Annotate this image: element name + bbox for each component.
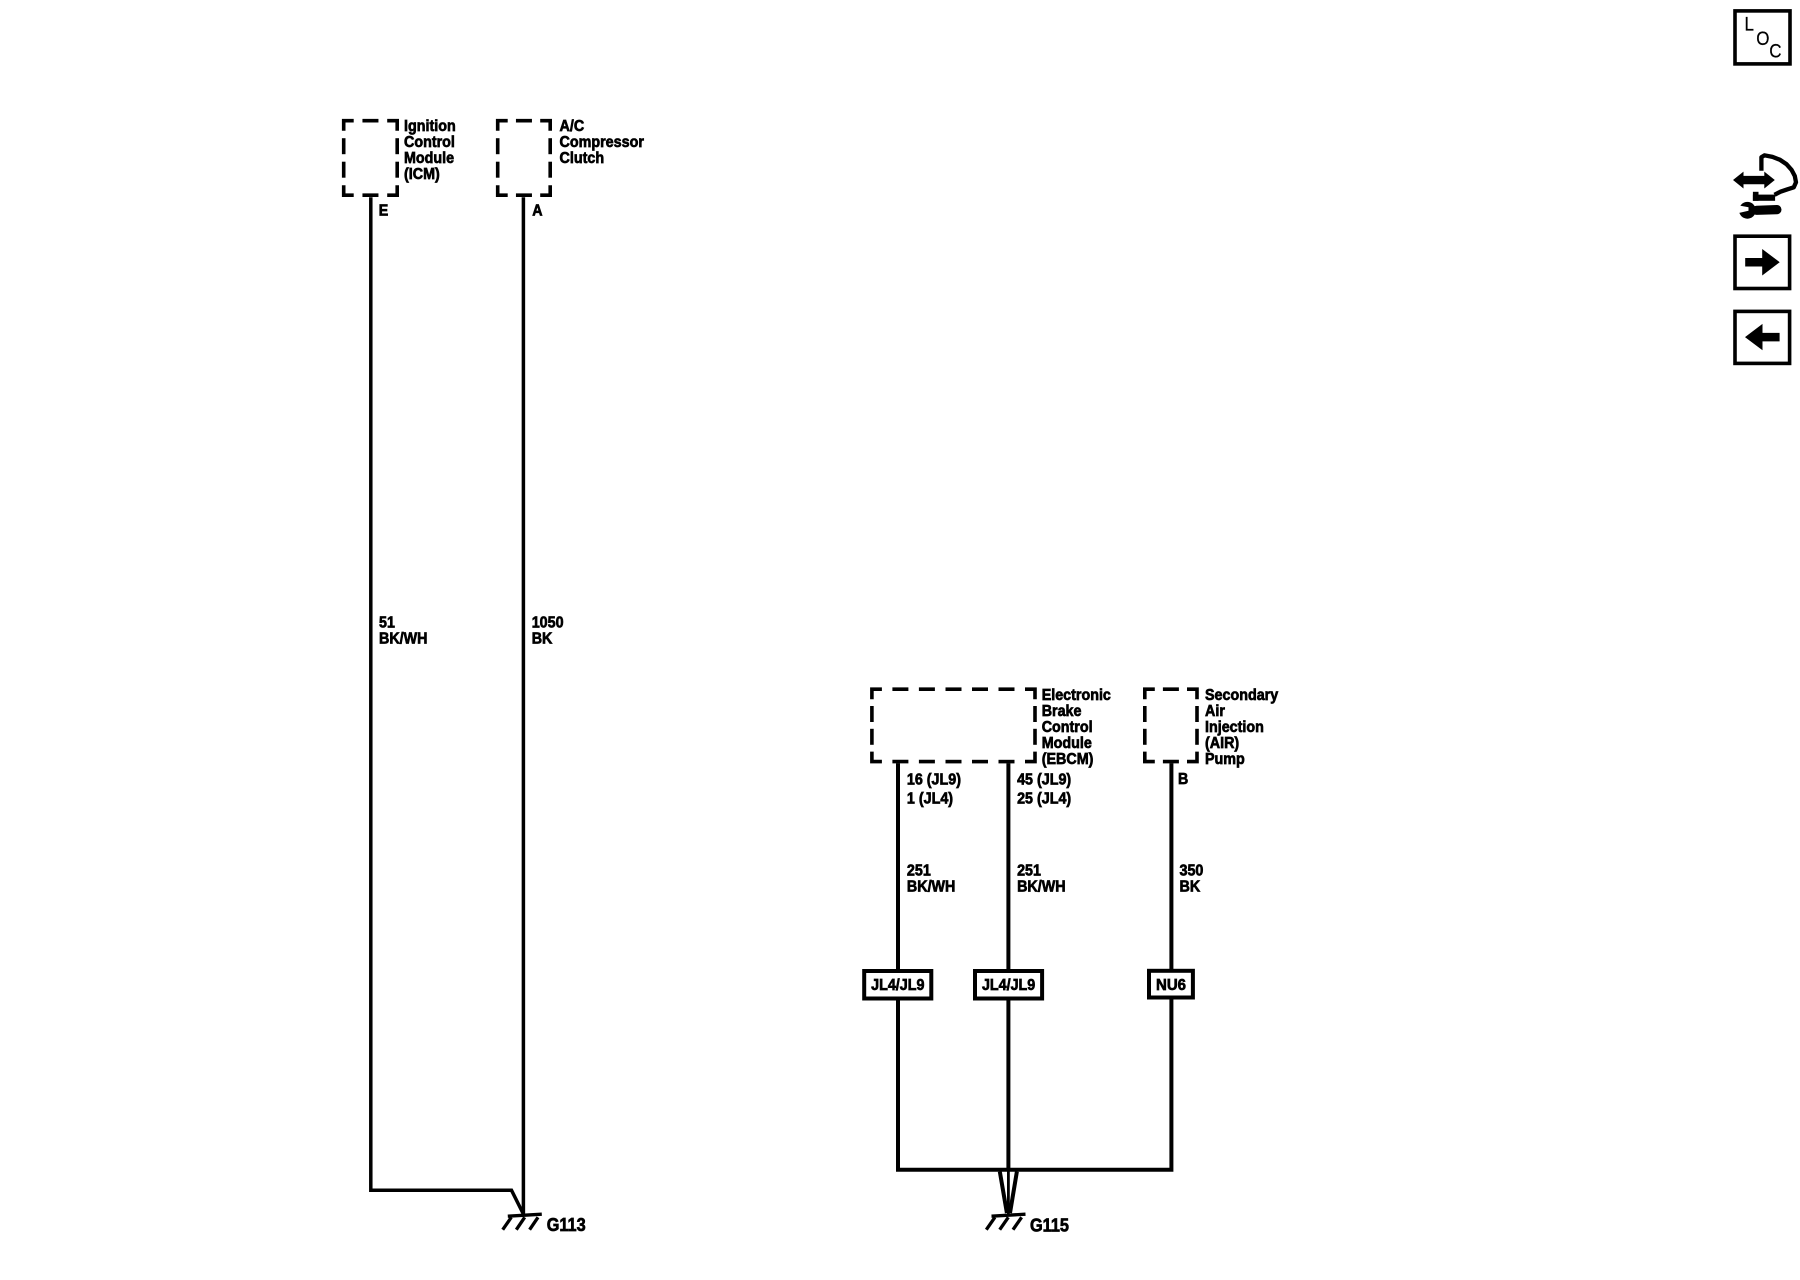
svg-text:Control: Control <box>1042 719 1093 736</box>
svg-text:Injection: Injection <box>1205 719 1264 736</box>
svg-text:BK/WH: BK/WH <box>1017 878 1066 895</box>
svg-text:BK/WH: BK/WH <box>379 631 428 648</box>
wire label 1050 BK <box>532 615 564 648</box>
svg-text:45 (JL9): 45 (JL9) <box>1017 771 1071 788</box>
svg-text:L: L <box>1745 15 1755 36</box>
svg-text:G115: G115 <box>1030 1216 1069 1236</box>
module ICM dashed box <box>344 121 398 196</box>
svg-text:BK/WH: BK/WH <box>907 878 956 895</box>
svg-text:Pump: Pump <box>1205 751 1245 768</box>
svg-text:BK: BK <box>532 631 553 648</box>
svg-text:Brake: Brake <box>1042 703 1082 720</box>
wire 51 BK/WH from ICM pin E to G113 <box>371 197 524 1214</box>
svg-text:Compressor: Compressor <box>560 134 644 151</box>
label Secondary Air Injection (AIR) Pump <box>1205 687 1278 768</box>
svg-text:Secondary: Secondary <box>1205 687 1278 704</box>
svg-text:251: 251 <box>907 862 931 879</box>
svg-text:1 (JL4): 1 (JL4) <box>907 791 953 808</box>
icon wiring navigation (double arrow, loop, wrench) <box>1733 155 1796 218</box>
svg-text:NU6: NU6 <box>1156 977 1186 994</box>
connector JL4/JL9 (middle) <box>975 971 1042 999</box>
icon LOC box <box>1735 11 1790 64</box>
wire 1050 BK from A/C pin A to G113 <box>522 197 526 1215</box>
svg-text:350: 350 <box>1180 862 1204 879</box>
svg-text:O: O <box>1756 29 1769 50</box>
ground G113 <box>503 1214 542 1230</box>
wire label 251 BK/WH (middle) <box>1017 862 1066 895</box>
label A/C Compressor Clutch <box>560 118 644 167</box>
svg-text:A/C: A/C <box>560 118 585 135</box>
svg-text:Module: Module <box>1042 735 1092 752</box>
svg-text:Clutch: Clutch <box>560 150 605 167</box>
svg-text:C: C <box>1769 41 1781 62</box>
module A/C Compressor Clutch dashed box <box>498 121 551 196</box>
svg-text:A: A <box>532 203 543 220</box>
svg-text:Module: Module <box>404 150 454 167</box>
svg-text:JL4/JL9: JL4/JL9 <box>982 977 1035 994</box>
pin label 16 (JL9) / 1 (JL4) <box>907 771 961 807</box>
label Ignition Control Module (ICM) <box>404 118 456 183</box>
svg-text:G113: G113 <box>547 1215 586 1235</box>
ground G115 <box>986 1214 1025 1230</box>
module AIR Pump dashed box <box>1145 689 1197 761</box>
funnel merge into G115 <box>1000 1172 1017 1214</box>
wire label 350 BK (right) <box>1180 862 1204 895</box>
icon back arrow box <box>1735 311 1790 363</box>
svg-text:Control: Control <box>404 134 455 151</box>
svg-text:(EBCM): (EBCM) <box>1042 751 1094 768</box>
svg-text:25 (JL4): 25 (JL4) <box>1017 791 1071 808</box>
svg-text:(AIR): (AIR) <box>1205 735 1239 752</box>
svg-text:BK: BK <box>1180 878 1201 895</box>
wire label 51 BK/WH <box>379 615 428 648</box>
svg-text:Air: Air <box>1205 703 1225 720</box>
label Electronic Brake Control Module (EBCM) <box>1042 687 1111 768</box>
svg-text:1050: 1050 <box>532 615 564 632</box>
icon forward arrow box <box>1735 236 1790 288</box>
wire 251 BK/WH from EBCM pin 45 to G115 <box>1006 763 1010 1170</box>
svg-text:51: 51 <box>379 615 395 632</box>
wire label 251 BK/WH (left) <box>907 862 956 895</box>
svg-text:B: B <box>1178 771 1188 788</box>
svg-text:251: 251 <box>1017 862 1041 879</box>
connector NU6 <box>1149 971 1193 998</box>
svg-text:Electronic: Electronic <box>1042 687 1111 704</box>
svg-text:(ICM): (ICM) <box>404 166 440 183</box>
svg-text:E: E <box>379 203 389 220</box>
svg-text:Ignition: Ignition <box>404 118 456 135</box>
pin label 45 (JL9) / 25 (JL4) <box>1017 771 1071 807</box>
svg-text:JL4/JL9: JL4/JL9 <box>871 977 924 994</box>
module EBCM dashed box <box>872 689 1035 761</box>
wire 251 BK/WH from EBCM pin 16 to ground bus <box>898 763 1171 1170</box>
svg-text:16 (JL9): 16 (JL9) <box>907 771 961 788</box>
connector JL4/JL9 (left) <box>864 971 931 999</box>
